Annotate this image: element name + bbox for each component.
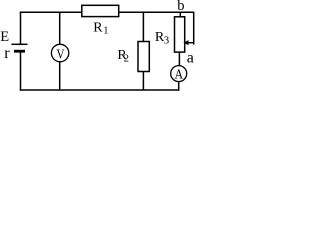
wire ammeter to bottom (178, 82, 180, 91)
svg-text:3: 3 (164, 35, 169, 46)
wire top (20, 11, 194, 13)
svg-text:r: r (4, 45, 10, 62)
wire bottom (20, 89, 180, 91)
svg-text:2: 2 (124, 54, 129, 65)
wire battery branch upper (20, 12, 22, 45)
wire R2 branch lower (142, 72, 144, 91)
resistor R1 (82, 5, 119, 16)
svg-text:E: E (0, 29, 9, 45)
resistor R2 (138, 42, 149, 72)
svg-text:1: 1 (103, 26, 108, 37)
ammeter A (171, 66, 187, 82)
svg-text:A: A (174, 67, 183, 82)
wire right border (193, 12, 195, 45)
wire voltmeter branch upper (59, 12, 61, 44)
svg-text:b: b (177, 0, 184, 14)
svg-text:a: a (187, 49, 194, 66)
node b terminal wire (179, 12, 181, 16)
voltmeter V (51, 44, 68, 61)
wire battery branch lower (20, 52, 22, 91)
wire R2 branch upper (142, 12, 144, 41)
svg-text:R: R (93, 20, 103, 35)
svg-text:V: V (56, 47, 64, 62)
rheostat R3 (175, 17, 185, 52)
rheostat wiper arrow (183, 40, 194, 45)
wire R3 to ammeter (178, 52, 180, 65)
wire voltmeter branch lower (59, 62, 61, 90)
battery E r (12, 44, 28, 51)
